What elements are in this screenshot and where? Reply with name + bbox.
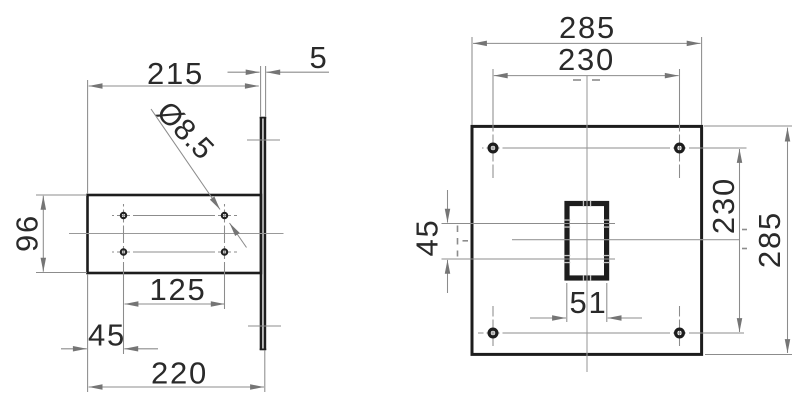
- svg-text:45: 45: [88, 318, 126, 353]
- dim 96 extension top: [36, 194, 87, 196]
- dim 285 right extension top: [704, 125, 792, 127]
- side body rectangle: [88, 195, 262, 273]
- wall plate left face line: [260, 117, 263, 350]
- corner hole top-left: [489, 144, 497, 152]
- plate hole tick bottom: [248, 325, 281, 327]
- dim 96 extension bottom: [36, 272, 87, 274]
- dim 5 extension lines: [260, 66, 262, 117]
- dim 45 lower arrow: [447, 260, 449, 293]
- wall plate top cap: [260, 117, 267, 119]
- dim 285 right extension bottom: [705, 354, 792, 356]
- dim 285 top line: [473, 42, 586, 44]
- hole bottom-left: [121, 249, 126, 254]
- dim 45 left arrow (outside): [61, 348, 87, 350]
- dim 215 extension line left: [87, 80, 89, 194]
- dim 285 top extension left: [471, 37, 473, 125]
- dim 96 line: [42, 196, 44, 234]
- centerline gaps: [484, 132, 690, 351]
- dim 220 extension left: [87, 274, 89, 392]
- hole column centerline right: [224, 204, 226, 309]
- leader line upper segment for hole diameter: [151, 109, 220, 210]
- leader line lower segment for hole diameter: [230, 223, 247, 248]
- dim 220 extension right: [264, 351, 266, 393]
- hole column centerline left: [123, 204, 125, 354]
- hole top-right: [222, 213, 227, 218]
- svg-text:215: 215: [147, 56, 204, 91]
- dash horizontal mark left: [463, 240, 469, 242]
- hole row centerline bottom: [478, 332, 744, 334]
- dim 220 line: [89, 386, 176, 388]
- hole row centerline bottom: [112, 251, 237, 253]
- centerline horizontal mid: [69, 233, 284, 235]
- wall plate right face line: [264, 117, 267, 350]
- svg-text:51: 51: [569, 285, 607, 320]
- dim 230 right line: [739, 149, 741, 240]
- lower slot centerline: [442, 258, 616, 260]
- svg-text:285: 285: [752, 211, 787, 268]
- wall plate bottom cap: [260, 348, 267, 350]
- slot centerline gaps: [564, 201, 610, 281]
- svg-text:230: 230: [706, 177, 741, 234]
- svg-text:5: 5: [309, 40, 328, 75]
- dim 5 right arrow: [266, 71, 329, 73]
- dim 285 top extension right: [701, 37, 703, 125]
- dim 51 extension right: [606, 283, 608, 322]
- dashed center mark top right: [592, 79, 600, 81]
- hole column centerline bottom-left: [492, 306, 494, 350]
- hole column centerline bottom-right: [679, 306, 681, 350]
- centerline gaps: [114, 207, 234, 263]
- hole row centerline top: [112, 215, 237, 217]
- svg-text:285: 285: [559, 10, 616, 45]
- svg-text:230: 230: [558, 42, 615, 77]
- plate hole tick top: [247, 139, 280, 141]
- front plate outline: [472, 126, 702, 354]
- svg-text:220: 220: [151, 356, 208, 391]
- dim 51 left arrow: [530, 317, 566, 319]
- hole column centerline top-right: [679, 69, 681, 178]
- dashed marks right of plate: [742, 229, 747, 231]
- corner hole bottom-right: [676, 329, 684, 337]
- dim 45 right arrow (outside): [124, 348, 158, 350]
- dashed center mark top left: [573, 79, 581, 81]
- center slot rectangle: [567, 204, 607, 279]
- dim 230 top line: [494, 75, 586, 77]
- hole column centerline top-left: [492, 69, 494, 178]
- horizontal centerline of plate: [512, 239, 739, 241]
- vertical centerline of plate: [586, 76, 588, 372]
- dim 215 line: [89, 85, 173, 87]
- dim 51 extension left: [566, 283, 568, 322]
- dim 285 right line: [787, 128, 789, 240]
- svg-text:125: 125: [149, 272, 206, 307]
- svg-text:96: 96: [10, 214, 45, 252]
- svg-text:Ø8.5: Ø8.5: [150, 95, 220, 166]
- corner hole bottom-left: [489, 329, 497, 337]
- dim 125 line: [125, 303, 176, 305]
- dim 45 upper arrow: [447, 190, 449, 223]
- upper slot centerline: [442, 223, 616, 225]
- dim 51 right arrow: [608, 317, 642, 319]
- hole row centerline top: [482, 147, 747, 149]
- svg-text:45: 45: [410, 218, 445, 256]
- hole top-left: [121, 213, 126, 218]
- dashed vertical mark left of plate: [457, 226, 459, 257]
- hole bottom-right: [222, 249, 227, 254]
- corner hole top-right: [676, 144, 684, 152]
- dim 5 left arrow: [228, 71, 260, 73]
